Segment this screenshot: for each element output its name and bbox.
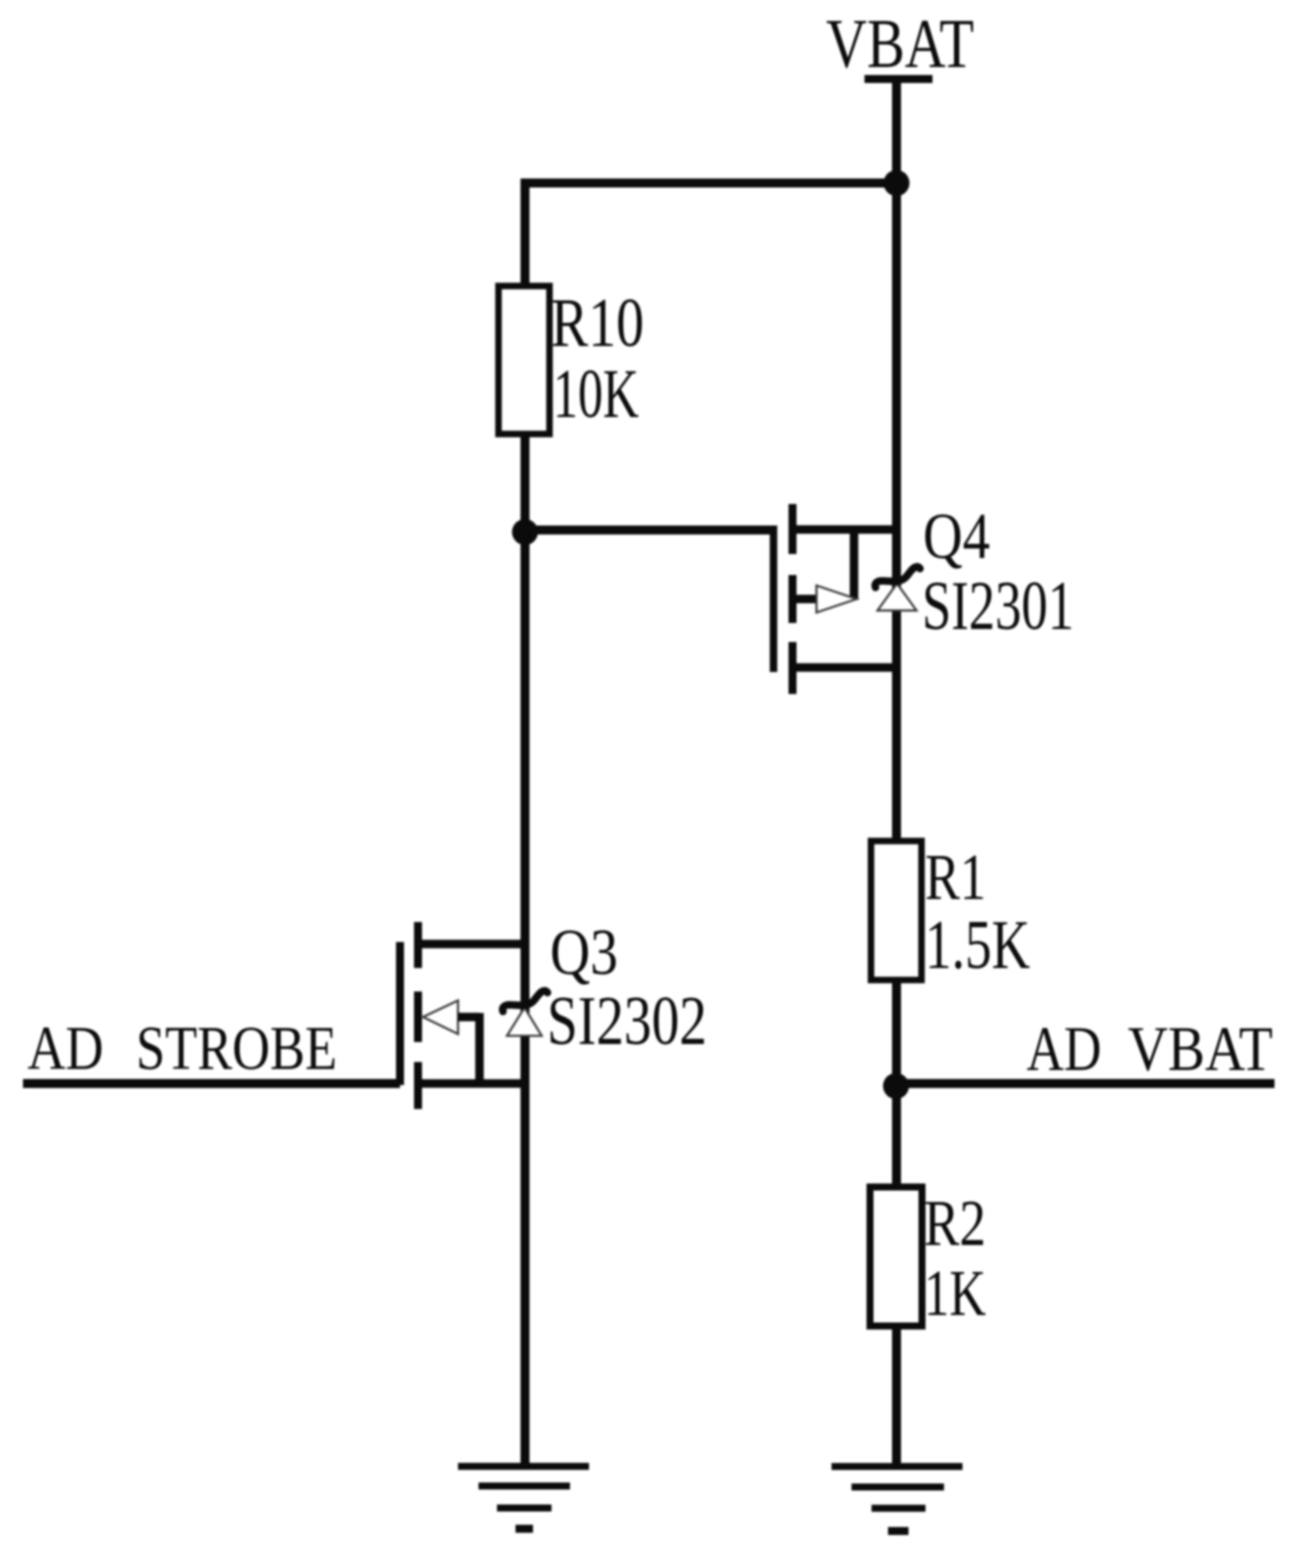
transistor Q3 bulk arrow (423, 1001, 458, 1035)
ground (right) (832, 1467, 963, 1532)
transistor Q4 body diode squiggle (875, 567, 920, 588)
svg-text:SI2302: SI2302 (547, 982, 707, 1060)
transistor Q4 body diode triangle (878, 584, 917, 611)
resistor R2 (870, 1187, 922, 1326)
transistor Q3 bulk lead (458, 1013, 480, 1022)
svg-text:10K: 10K (553, 356, 639, 433)
svg-text:Q3: Q3 (550, 917, 618, 989)
transistor Q3 body bar (475, 1013, 484, 1084)
svg-text:R10: R10 (551, 284, 644, 361)
resistor R1 (871, 841, 922, 980)
transistor Q4 drain (bottom) lead (793, 663, 897, 672)
wire right vertical VBAT junction to R1 (892, 183, 901, 843)
node junction VBAT (884, 170, 910, 196)
transistor Q4 gate bar (770, 526, 778, 673)
wire junction to Q4 gate (525, 526, 777, 535)
transistor Q4 channel segments (789, 504, 797, 554)
svg-text:VBAT: VBAT (1128, 1013, 1273, 1083)
svg-text:Q4: Q4 (923, 500, 990, 573)
transistor Q3 source (bottom) lead (418, 1079, 525, 1088)
node junction AD_VBAT (883, 1073, 909, 1099)
transistor Q4 source (top) lead (793, 525, 897, 534)
svg-text:1K: 1K (924, 1257, 986, 1330)
node junction R10/Q4 gate (512, 519, 538, 545)
transistor Q3 body diode squiggle (503, 991, 548, 1012)
transistor Q4 bulk lead (793, 595, 818, 604)
wire left vertical R10 to ground (521, 434, 530, 1466)
svg-text:STROBE: STROBE (136, 1015, 337, 1083)
svg-text:AD: AD (28, 1015, 104, 1083)
transistor Q3 channel segments (414, 922, 422, 968)
svg-text:AD: AD (1027, 1013, 1102, 1084)
VBAT power bar (865, 75, 933, 83)
resistor R10 (499, 286, 550, 434)
svg-text:VBAT: VBAT (826, 4, 974, 82)
svg-text:1.5K: 1.5K (925, 907, 1030, 984)
svg-text:SI2301: SI2301 (922, 568, 1074, 645)
wire R1 to R2 (892, 980, 901, 1187)
svg-text:R1: R1 (925, 840, 986, 913)
wire AD_STROBE (23, 1079, 400, 1088)
transistor Q4 bulk arrow (817, 586, 857, 613)
wire top horizontal and left drop to R10 (525, 183, 897, 288)
svg-text:R2: R2 (924, 1187, 986, 1260)
transistor Q4 body bar (850, 526, 859, 600)
ground (left) (458, 1466, 589, 1528)
transistor Q3 body diode triangle (507, 1008, 542, 1036)
wire VBAT bar to junction (892, 79, 901, 183)
wire AD_VBAT (896, 1079, 1275, 1088)
transistor Q3 gate bar (396, 942, 404, 1085)
wire R2 to ground (892, 1326, 901, 1466)
transistor Q3 drain (top) lead (418, 940, 525, 949)
